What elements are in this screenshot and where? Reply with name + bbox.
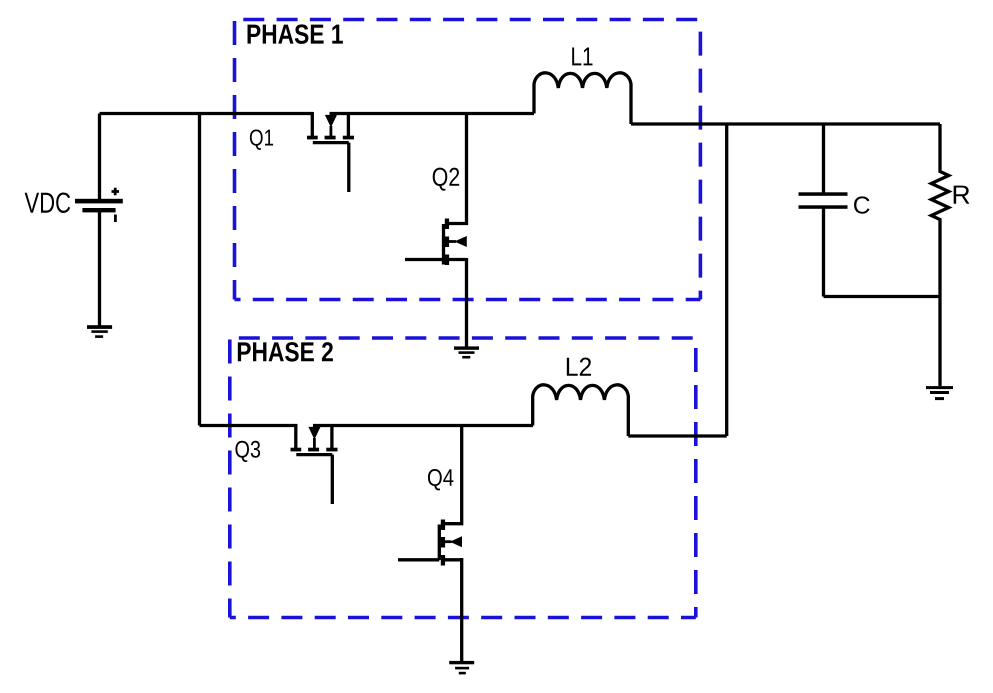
- resistor R: [931, 124, 948, 386]
- ground (battery): [87, 325, 112, 338]
- inductor L2: [533, 385, 629, 436]
- wire L2 output to node: [628, 434, 726, 437]
- label C: [854, 196, 870, 213]
- wire output node down to phase 2 output: [725, 124, 728, 436]
- ground (Q4 source): [449, 661, 474, 674]
- node A: input bus junction, vertical feed to phase 2: [198, 112, 201, 426]
- label Q1: [250, 129, 273, 149]
- wire Q3 source to L2: [313, 424, 533, 427]
- wire top bus from VDC to Q1 drain: [100, 112, 314, 115]
- transistor Q1: [307, 112, 354, 192]
- inductor L1: [534, 73, 631, 124]
- ground (R bottom): [926, 386, 953, 400]
- label PHASE 1: [248, 24, 343, 43]
- label R: [954, 186, 970, 204]
- label Q2: [433, 168, 459, 191]
- phase 2 dashed box: [230, 338, 696, 618]
- wire Q1 source to L1: [330, 112, 535, 115]
- ground (Q2 source): [454, 346, 479, 358]
- label Q3: [235, 441, 260, 462]
- wire L1 output to load: [631, 122, 940, 125]
- capacitor C: [799, 124, 848, 297]
- wire phase 2 bus to Q3: [200, 424, 298, 427]
- label L2: [567, 358, 591, 376]
- label L1: [572, 48, 592, 66]
- wire C bottom to R bottom: [824, 295, 941, 298]
- transistor Q4: [398, 426, 462, 662]
- label Q4: [428, 469, 453, 490]
- label PHASE 2: [238, 342, 333, 361]
- transistor Q3: [291, 424, 338, 504]
- phase 1 dashed box: [235, 20, 701, 300]
- label VDC: [25, 192, 71, 213]
- battery VDC: [75, 114, 123, 326]
- transistor Q2: [405, 114, 467, 347]
